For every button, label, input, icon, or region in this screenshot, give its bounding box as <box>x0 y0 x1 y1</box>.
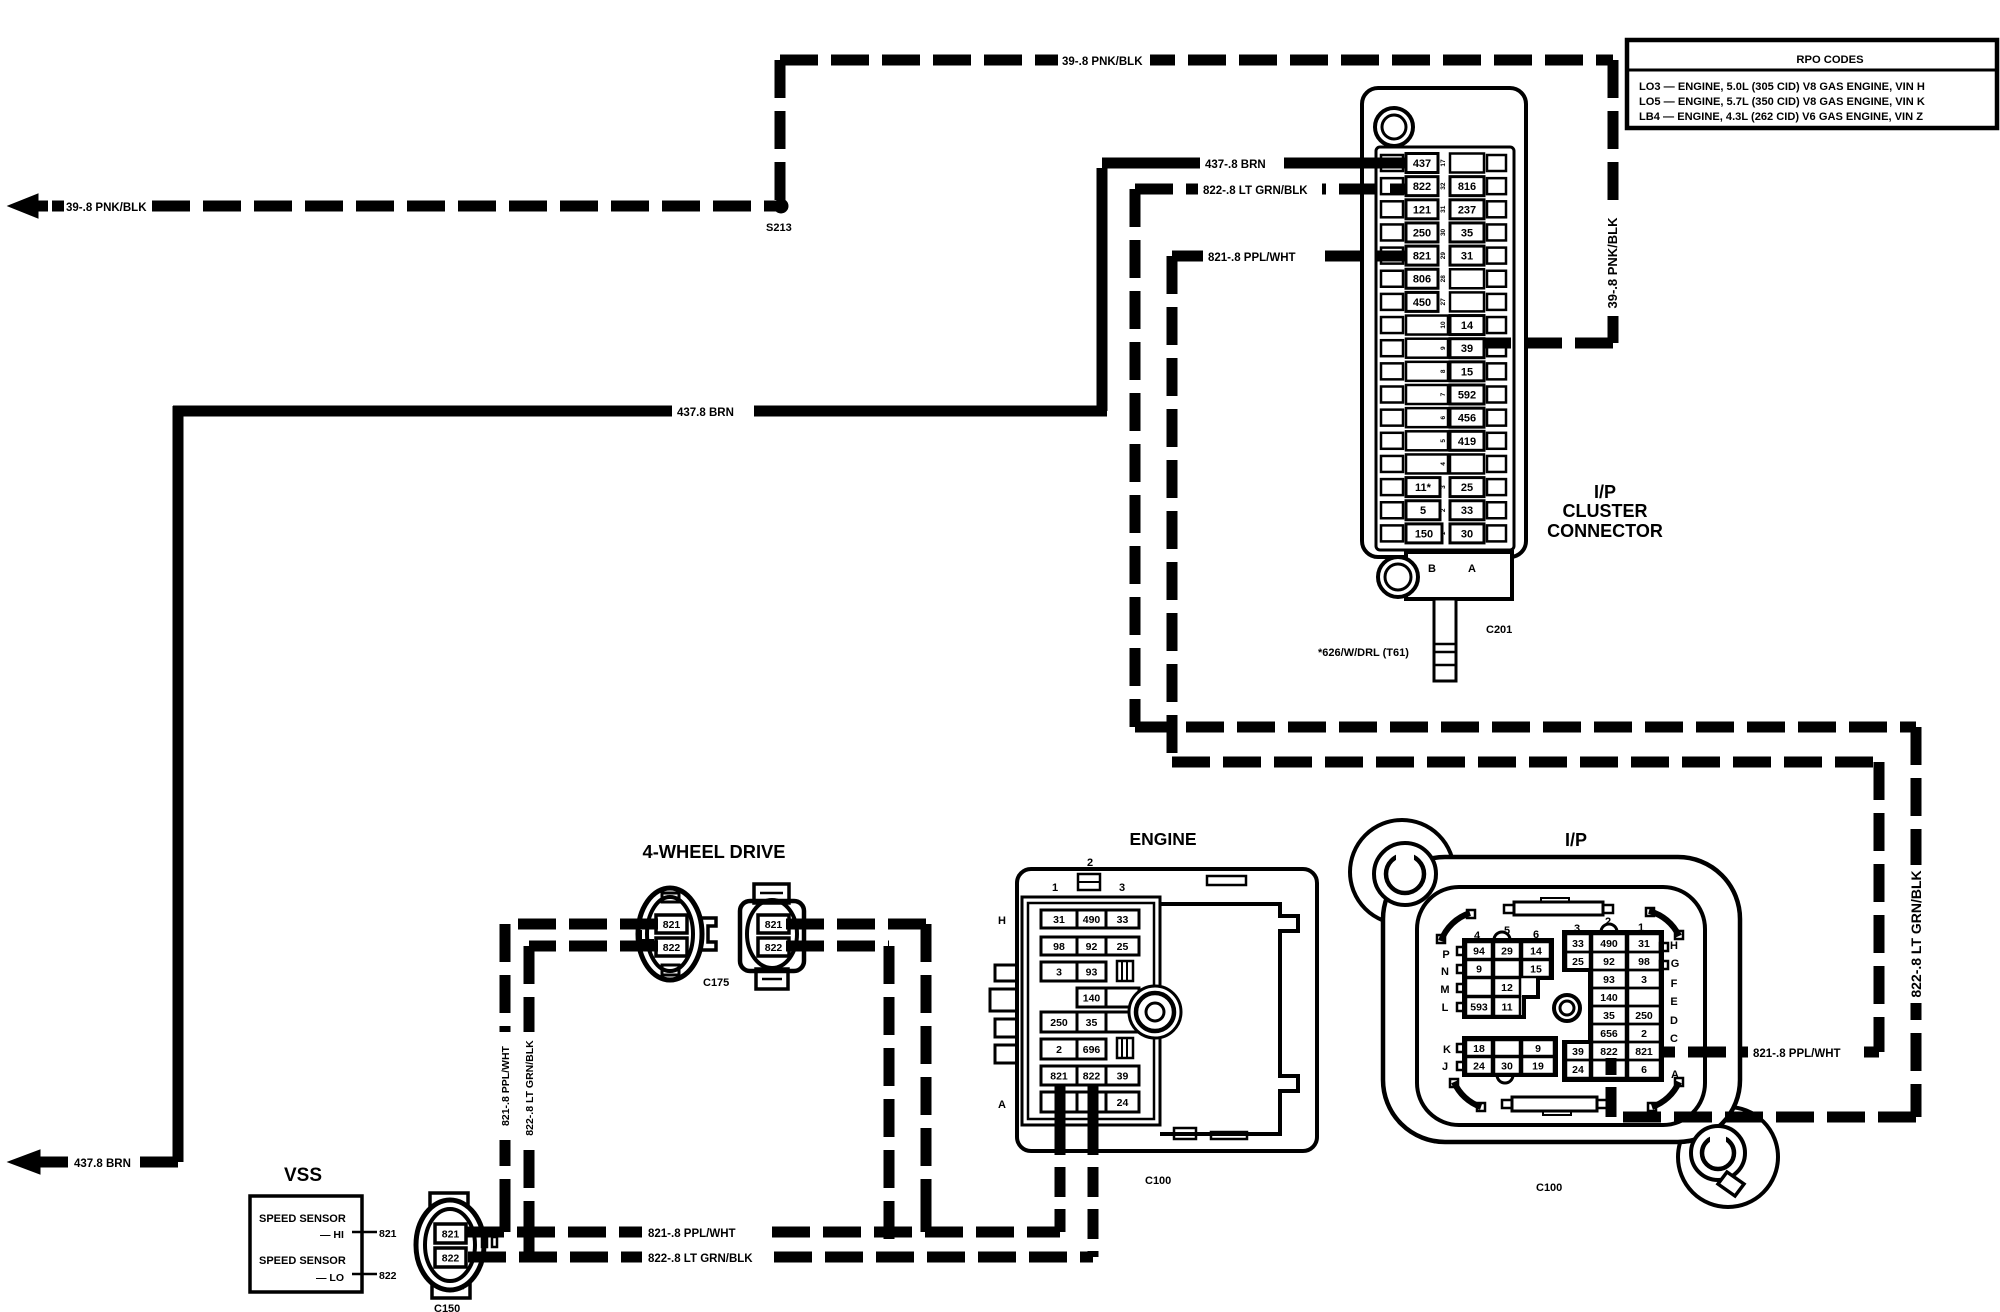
svg-text:— LO: — LO <box>316 1272 344 1284</box>
wire 822 into pin 822 of IP C100 <box>1606 1058 1617 1117</box>
C201 row 1 pin boxes (437 | -) <box>1381 155 1403 171</box>
svg-text:H: H <box>998 915 1006 927</box>
C175 pin 822 <box>656 938 687 956</box>
svg-text:806: 806 <box>1413 274 1431 286</box>
ENGINE C100 bolt <box>1129 986 1181 1038</box>
svg-text:121: 121 <box>1413 204 1431 216</box>
C150 top tab <box>430 1193 468 1213</box>
C201 mounting circle top <box>1375 108 1413 146</box>
svg-text:24: 24 <box>1572 1064 1584 1076</box>
svg-text:92: 92 <box>1603 956 1615 968</box>
IP C100 right block cells <box>1566 934 1590 952</box>
svg-text:5: 5 <box>1440 439 1447 443</box>
label 39-.8 PNK/BLK (top) <box>1058 49 1150 71</box>
svg-text:C175: C175 <box>703 977 729 989</box>
4WD right connector bottom tab <box>756 969 788 989</box>
IP C100 top-left ear <box>1350 820 1454 924</box>
ENGINE C100 keyway row3 <box>1117 961 1133 981</box>
svg-text:D: D <box>1670 1015 1678 1027</box>
svg-text:17: 17 <box>1440 159 1447 167</box>
svg-text:6: 6 <box>1440 415 1447 419</box>
svg-text:N: N <box>1441 966 1449 978</box>
ENGINE C100 wire 822 drop <box>1088 1085 1099 1125</box>
svg-text:3: 3 <box>1440 485 1447 489</box>
svg-text:I/P: I/P <box>1594 482 1616 502</box>
svg-text:S213: S213 <box>766 222 792 234</box>
svg-text:821: 821 <box>663 919 681 931</box>
4WD connector C175 left body <box>638 888 702 980</box>
svg-text:437-.8 BRN: 437-.8 BRN <box>1205 159 1266 171</box>
IP C100 left block cells K-J <box>1466 1040 1492 1056</box>
svg-text:4-WHEEL DRIVE: 4-WHEEL DRIVE <box>643 841 786 862</box>
ENGINE C100 wire 821 drop <box>1055 1085 1066 1125</box>
svg-text:— HI: — HI <box>320 1229 344 1241</box>
svg-text:821: 821 <box>765 919 783 931</box>
svg-text:9: 9 <box>1476 963 1482 975</box>
svg-text:19: 19 <box>1532 1060 1544 1072</box>
junction patch 821 vertical <box>500 1200 511 1232</box>
label 822-.8 LT GRN/BLK (bottom) <box>642 1245 770 1267</box>
C175 top tab <box>662 893 679 902</box>
wire 822-.8 LT GRN/BLK bottom horizontal <box>468 1252 1093 1263</box>
C201 row 11 pin boxes (- | 592) <box>1381 387 1403 403</box>
svg-text:3: 3 <box>1641 974 1647 986</box>
svg-text:9: 9 <box>1535 1043 1541 1055</box>
svg-text:822: 822 <box>1413 181 1431 193</box>
svg-text:237: 237 <box>1458 204 1476 216</box>
svg-text:656: 656 <box>1600 1028 1618 1040</box>
C201 row 9 pin boxes (- | 39) <box>1381 340 1403 356</box>
svg-text:B: B <box>1428 563 1436 575</box>
ENGINE C100 keyway row6 <box>1117 1038 1133 1058</box>
svg-text:1: 1 <box>1052 882 1058 894</box>
ENGINE C100 row 7 boxes <box>1041 1066 1077 1085</box>
svg-text:1: 1 <box>1440 531 1447 535</box>
svg-text:2: 2 <box>1641 1028 1647 1040</box>
svg-text:P: P <box>1442 949 1449 961</box>
IP C100 bottom-right ear <box>1678 1107 1778 1207</box>
IP C100 bump over col2 <box>1601 924 1617 932</box>
IP C100 bump under col5 <box>1497 1075 1513 1083</box>
wire 821 vertical down <box>1167 256 1178 762</box>
wire 822 bottom horizontal into IP C100 <box>1611 1112 1916 1123</box>
svg-text:98: 98 <box>1053 941 1065 953</box>
C201 row 4 pin boxes (250 | 35) <box>1381 224 1403 240</box>
C201 row 6 pin boxes (806 | -) <box>1381 271 1403 287</box>
wire 822 4WD right connector to corner <box>786 941 889 952</box>
svg-text:92: 92 <box>1086 941 1098 953</box>
svg-text:SPEED SENSOR: SPEED SENSOR <box>259 1255 346 1267</box>
C201 row 17 pin boxes (150 | 30) <box>1381 525 1403 541</box>
wire 821 right vertical <box>1874 762 1885 1052</box>
C201 row 15 pin boxes (11* | 25) <box>1381 479 1403 495</box>
IP C100 top slot <box>1514 902 1603 915</box>
wire 437-.8 BRN from cluster pin 437 <box>1102 158 1406 169</box>
svg-text:33: 33 <box>1117 914 1129 926</box>
svg-text:3: 3 <box>1119 882 1125 894</box>
svg-text:250: 250 <box>1050 1017 1068 1029</box>
ENGINE C100 row 8 boxes <box>1041 1092 1077 1112</box>
IP C100 right block outline <box>1564 932 1662 1080</box>
svg-text:18: 18 <box>1473 1043 1485 1055</box>
ENGINE C100 row 6 boxes <box>1041 1039 1077 1059</box>
svg-text:9: 9 <box>1440 346 1447 350</box>
wire 437-.8 BRN bottom arrow <box>36 1157 68 1168</box>
C201 row 7 pin boxes (450 | -) <box>1381 294 1403 310</box>
svg-text:SPEED SENSOR: SPEED SENSOR <box>259 1213 346 1225</box>
svg-text:150: 150 <box>1415 528 1433 540</box>
ENGINE C100 mating outline <box>1160 904 1298 1134</box>
svg-text:H: H <box>1670 940 1678 952</box>
svg-text:LO3 — ENGINE, 5.0L (305 CID) V: LO3 — ENGINE, 5.0L (305 CID) V8 GAS ENGI… <box>1639 81 1925 93</box>
C175 pin 821 <box>656 915 687 933</box>
IP C100 bump over col5 <box>1494 932 1510 940</box>
svg-text:*626/W/DRL (T61): *626/W/DRL (T61) <box>1318 647 1409 659</box>
svg-text:C100: C100 <box>1536 1182 1562 1194</box>
C201 row 3 pin boxes (121 | 237) <box>1381 201 1403 217</box>
C201 row 8 pin boxes (- | 14) <box>1381 317 1403 333</box>
wire 822 4WD right vertical down <box>884 946 895 1257</box>
svg-text:E: E <box>1670 996 1677 1008</box>
svg-text:816: 816 <box>1458 181 1476 193</box>
IP C100 bottom slot <box>1512 1097 1597 1111</box>
C201 B/A index box <box>1406 552 1512 599</box>
svg-text:4: 4 <box>1440 462 1447 466</box>
svg-text:30: 30 <box>1501 1060 1513 1072</box>
RPO codes table <box>1627 40 1997 128</box>
svg-text:14: 14 <box>1461 320 1474 332</box>
IP C100 left block keys K-J <box>1457 1044 1465 1052</box>
svg-text:CLUSTER: CLUSTER <box>1563 501 1648 521</box>
svg-text:A: A <box>1468 563 1476 575</box>
svg-text:33: 33 <box>1461 505 1473 517</box>
svg-text:CONNECTOR: CONNECTOR <box>1547 521 1663 541</box>
svg-text:2: 2 <box>1087 857 1093 869</box>
label 821-.8 PPL/WHT (bottom) <box>642 1220 764 1242</box>
svg-text:592: 592 <box>1458 389 1476 401</box>
C150 body <box>416 1200 484 1290</box>
IP C100 outer body <box>1383 857 1740 1142</box>
svg-text:31: 31 <box>1461 251 1473 263</box>
IP C100 top-left bolt <box>1374 843 1436 905</box>
svg-text:27: 27 <box>1440 298 1447 306</box>
ENGINE C100 bottom slots <box>1174 1128 1196 1139</box>
wire 821 C175 left <box>505 919 658 930</box>
C175 keyway bracket <box>640 930 654 941</box>
svg-text:LB4 — ENGINE, 4.3L (262 CID) V: LB4 — ENGINE, 4.3L (262 CID) V6 GAS ENGI… <box>1639 111 1923 123</box>
wire 821 into pin 821 of IP C100 <box>1662 1047 1879 1058</box>
svg-text:11: 11 <box>1501 1001 1512 1013</box>
IP C100 right block keys <box>1660 943 1668 951</box>
svg-text:93: 93 <box>1603 974 1615 986</box>
C201 row 14 pin boxes (- | -) <box>1381 456 1403 472</box>
wire 822-.8 LT GRN/BLK from cluster pin 822 <box>1135 184 1406 195</box>
wire 39-.8 PNK/BLK horizontal to S213 <box>152 201 778 212</box>
svg-text:5: 5 <box>1420 505 1426 517</box>
wire 821 horizontal middle <box>1172 757 1879 768</box>
svg-text:33: 33 <box>1572 938 1584 950</box>
svg-text:39: 39 <box>1461 343 1473 355</box>
svg-text:250: 250 <box>1635 1010 1653 1022</box>
wire 821 left vertical down <box>500 924 511 1232</box>
C175 bottom tab <box>662 965 679 975</box>
VSS box <box>250 1196 362 1292</box>
svg-text:15: 15 <box>1530 963 1542 975</box>
svg-text:450: 450 <box>1413 297 1431 309</box>
svg-text:30: 30 <box>1461 528 1473 540</box>
wire 821-.8 PPL/WHT bottom horizontal <box>466 1227 1060 1238</box>
svg-text:821: 821 <box>442 1228 460 1240</box>
C150 pin 821 <box>435 1224 466 1243</box>
svg-text:593: 593 <box>1470 1001 1488 1013</box>
svg-text:J: J <box>1442 1061 1448 1073</box>
wire 822 horizontal middle <box>1135 722 1916 733</box>
svg-text:822-.8 LT GRN/BLK: 822-.8 LT GRN/BLK <box>648 1253 753 1265</box>
wire 821 4WD right connector to corner <box>786 919 926 930</box>
svg-text:31: 31 <box>1440 205 1447 213</box>
svg-text:I/P: I/P <box>1565 830 1587 850</box>
C201 mounting circle bottom <box>1378 557 1418 597</box>
label 437-.8 BRN (near cluster) <box>1200 152 1284 174</box>
C201 row 13 pin boxes (- | 419) <box>1381 433 1403 449</box>
4WD right connector body <box>740 901 804 971</box>
svg-text:822: 822 <box>1083 1070 1101 1082</box>
svg-text:821: 821 <box>1413 251 1431 263</box>
ENGINE C100 top slot <box>1207 876 1246 885</box>
svg-text:RPO CODES: RPO CODES <box>1796 54 1864 66</box>
svg-text:2: 2 <box>1440 508 1447 512</box>
svg-text:822: 822 <box>765 942 783 954</box>
IP C100 corner arc top-right <box>1649 911 1679 936</box>
svg-text:822: 822 <box>663 942 681 954</box>
svg-text:822: 822 <box>442 1252 460 1264</box>
svg-text:C150: C150 <box>434 1303 460 1312</box>
svg-text:39: 39 <box>1117 1070 1129 1082</box>
svg-text:39: 39 <box>1572 1046 1584 1058</box>
junction patch 822 vertical <box>524 1225 535 1257</box>
C201 harness stem <box>1434 599 1456 681</box>
label 437.8 BRN (middle horizontal) <box>672 400 754 422</box>
svg-text:821: 821 <box>1050 1070 1068 1082</box>
svg-text:25: 25 <box>1117 941 1129 953</box>
ENGINE C100 inner panel <box>1022 897 1160 1125</box>
C175 right plug <box>701 918 716 950</box>
svg-text:10: 10 <box>1440 321 1447 329</box>
svg-text:39-.8 PNK/BLK: 39-.8 PNK/BLK <box>1605 217 1620 309</box>
svg-text:14: 14 <box>1530 945 1542 957</box>
wire 822 left vertical down <box>524 946 535 1257</box>
ENGINE C100 row 2 boxes <box>1041 937 1077 955</box>
svg-text:ENGINE: ENGINE <box>1129 829 1196 849</box>
IP C100 left block cells P-L <box>1466 942 1492 959</box>
svg-text:437.8 BRN: 437.8 BRN <box>677 407 734 419</box>
svg-text:15: 15 <box>1461 366 1473 378</box>
svg-text:419: 419 <box>1458 436 1476 448</box>
label 821-.8 PPL/WHT (right) <box>1748 1041 1864 1063</box>
svg-text:6: 6 <box>1641 1064 1647 1076</box>
C150 bottom tab <box>432 1277 470 1298</box>
IP C100 left block rows P-L outline <box>1464 940 1552 1017</box>
svg-text:C100: C100 <box>1145 1175 1171 1187</box>
svg-text:456: 456 <box>1458 413 1476 425</box>
svg-text:30: 30 <box>1440 228 1447 236</box>
svg-text:25: 25 <box>1572 956 1584 968</box>
svg-text:M: M <box>1440 984 1449 996</box>
C150 pin 822 <box>435 1248 466 1267</box>
wire 822 C175 left <box>529 941 658 952</box>
ENGINE C100 row 4 boxes <box>1077 988 1106 1007</box>
C201 row 2 pin boxes (822 | 816) <box>1381 178 1403 194</box>
I/P cluster connector C201 body <box>1362 88 1526 557</box>
ENGINE C100 latch box top <box>1078 874 1100 890</box>
wire 39-.8 PNK/BLK right vertical <box>1608 60 1619 343</box>
svg-text:250: 250 <box>1413 227 1431 239</box>
svg-text:490: 490 <box>1083 914 1101 926</box>
C201 row 10 pin boxes (- | 15) <box>1381 363 1403 379</box>
svg-text:98: 98 <box>1638 956 1650 968</box>
svg-text:F: F <box>1671 978 1678 990</box>
svg-text:K: K <box>1443 1044 1451 1056</box>
IP C100 corner arc bottom-right <box>1652 1082 1679 1107</box>
svg-text:93: 93 <box>1086 966 1098 978</box>
ENGINE C100 outer body <box>1017 869 1317 1151</box>
svg-text:822: 822 <box>1600 1046 1618 1058</box>
svg-text:29: 29 <box>1501 945 1513 957</box>
svg-text:35: 35 <box>1086 1017 1098 1029</box>
svg-text:821: 821 <box>1635 1046 1653 1058</box>
svg-text:822-.8 LT GRN/BLK: 822-.8 LT GRN/BLK <box>1203 185 1308 197</box>
svg-text:L: L <box>1442 1002 1449 1014</box>
svg-text:24: 24 <box>1473 1060 1485 1072</box>
label 821-.8 PPL/WHT (top) <box>1203 245 1321 267</box>
svg-text:140: 140 <box>1600 992 1618 1004</box>
svg-text:G: G <box>1671 958 1680 970</box>
svg-text:29: 29 <box>1440 252 1447 260</box>
svg-text:437: 437 <box>1413 158 1431 170</box>
svg-text:12: 12 <box>1501 982 1513 994</box>
svg-text:35: 35 <box>1603 1010 1615 1022</box>
svg-text:821-.8 PPL/WHT: 821-.8 PPL/WHT <box>648 1228 736 1240</box>
IP C100 corner arc top-left <box>1441 913 1470 941</box>
splice S213 <box>774 199 788 213</box>
svg-text:39-.8 PNK/BLK: 39-.8 PNK/BLK <box>66 202 147 214</box>
svg-text:39-.8 PNK/BLK: 39-.8 PNK/BLK <box>1062 56 1143 68</box>
wire 821 4WD right vertical down <box>921 924 932 1232</box>
svg-text:VSS: VSS <box>284 1165 322 1186</box>
svg-text:C201: C201 <box>1486 624 1512 636</box>
svg-text:822: 822 <box>379 1270 397 1282</box>
IP C100 center bolt <box>1554 995 1580 1021</box>
4WD right pin 821 <box>758 915 789 933</box>
svg-text:2: 2 <box>1056 1044 1062 1056</box>
svg-text:3: 3 <box>1056 966 1062 978</box>
ENGINE C100 row 3 boxes <box>1041 962 1077 981</box>
svg-text:A: A <box>1671 1069 1679 1081</box>
svg-text:821-.8 PPL/WHT: 821-.8 PPL/WHT <box>1753 1048 1841 1060</box>
svg-text:822-.8 LT GRN/BLK: 822-.8 LT GRN/BLK <box>524 1040 536 1136</box>
svg-text:31: 31 <box>1638 938 1650 950</box>
4WD right connector top tab <box>754 884 789 903</box>
svg-text:821-.8 PPL/WHT: 821-.8 PPL/WHT <box>1208 252 1296 264</box>
wire 39-.8 PNK/BLK into cluster pin 39 <box>1484 338 1613 349</box>
4WD right pin 822 <box>758 938 789 956</box>
svg-text:7: 7 <box>1440 392 1447 396</box>
ENGINE C100 row 5 boxes <box>1041 1012 1077 1032</box>
wire 39-.8 PNK/BLK top horizontal <box>780 55 1613 66</box>
wire 822 vertical down <box>1130 189 1141 727</box>
svg-text:25: 25 <box>1461 482 1473 494</box>
svg-text:94: 94 <box>1473 945 1485 957</box>
C201 row 16 pin boxes (5 | 33) <box>1381 502 1403 518</box>
svg-text:437.8 BRN: 437.8 BRN <box>74 1158 131 1170</box>
svg-text:C: C <box>1670 1033 1678 1045</box>
ENGINE C100 row 1 boxes <box>1041 910 1077 928</box>
C201 row 12 pin boxes (- | 456) <box>1381 410 1403 426</box>
svg-text:32: 32 <box>1440 182 1447 190</box>
svg-text:11*: 11* <box>1415 482 1432 494</box>
ENGINE C100 left tabs <box>995 965 1017 981</box>
svg-text:696: 696 <box>1083 1044 1101 1056</box>
svg-text:821: 821 <box>379 1228 397 1240</box>
IP C100 bottom-right bolt <box>1691 1126 1745 1180</box>
wire 39-.8 PNK/BLK left arrow <box>8 194 38 218</box>
svg-text:490: 490 <box>1600 938 1618 950</box>
C201 row 5 pin boxes (821 | 31) <box>1381 248 1403 264</box>
wire 821-.8 PPL/WHT from cluster pin 821 <box>1172 251 1406 262</box>
C150 keyway ticks <box>482 1237 487 1247</box>
junction patch 821 right vertical <box>921 1205 932 1232</box>
svg-text:822-.8 LT GRN/BLK: 822-.8 LT GRN/BLK <box>1908 870 1924 997</box>
svg-text:140: 140 <box>1083 992 1101 1004</box>
svg-text:LO5 — ENGINE, 5.7L (350 CID) V: LO5 — ENGINE, 5.7L (350 CID) V8 GAS ENGI… <box>1639 96 1925 108</box>
svg-text:35: 35 <box>1461 227 1473 239</box>
svg-text:28: 28 <box>1440 275 1447 283</box>
svg-text:821-.8 PPL/WHT: 821-.8 PPL/WHT <box>500 1045 512 1126</box>
IP C100 left block keys P-L <box>1457 947 1465 955</box>
wire 39-.8 PNK/BLK vertical above S213 <box>775 60 786 200</box>
svg-text:31: 31 <box>1053 914 1065 926</box>
svg-text:A: A <box>998 1099 1006 1111</box>
IP C100 corner arc bottom-left <box>1454 1082 1481 1107</box>
svg-text:24: 24 <box>1117 1097 1129 1109</box>
svg-text:8: 8 <box>1440 369 1447 373</box>
IP C100 left block rows K-J outline <box>1464 1038 1556 1075</box>
wire 822 right vertical <box>1911 727 1922 1117</box>
label 822-.8 LT GRN/BLK (top) <box>1198 178 1322 200</box>
